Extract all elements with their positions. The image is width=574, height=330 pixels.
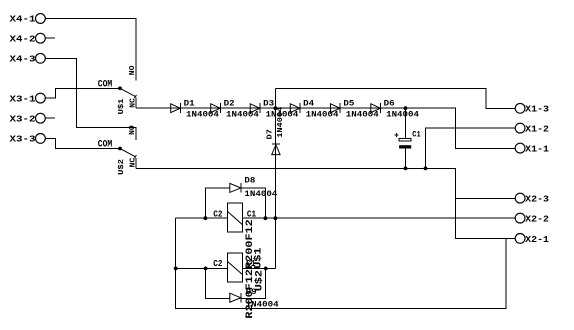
diode D6: [371, 99, 419, 120]
svg-text:C1: C1: [247, 210, 257, 220]
switch U$1: [98, 65, 138, 114]
connector pin X4-2: [10, 33, 46, 44]
svg-text:NO: NO: [129, 65, 137, 75]
svg-text:NC: NC: [129, 98, 137, 108]
svg-text:NC: NC: [129, 157, 137, 167]
svg-text:D6: D6: [384, 99, 395, 109]
wire X3-2 stub: [45, 117, 55, 119]
connector pin X3-2: [10, 113, 46, 124]
svg-text:1N4004: 1N4004: [346, 110, 379, 119]
diode D9: [206, 268, 279, 309]
capacitor C1: [394, 108, 420, 168]
connector pin X2-2: [515, 213, 549, 224]
wire NC2 row to rail / X2-1: [136, 169, 516, 239]
node junction D6-C1: [404, 106, 408, 110]
svg-text:C1: C1: [412, 130, 420, 139]
svg-text:X4-2: X4-2: [10, 33, 36, 44]
wire X3-3 to U$2 COM: [45, 138, 120, 148]
svg-text:C2: C2: [213, 210, 222, 220]
connector pin X3-1: [10, 93, 46, 104]
wire left rail to bottom rail to X2-1 riser: [176, 218, 506, 308]
connector pin X4-3: [10, 53, 46, 64]
wire X4-2 stub: [45, 37, 55, 39]
svg-text:D5: D5: [343, 99, 354, 109]
svg-text:X1-1: X1-1: [525, 144, 549, 155]
node junction D8 right: [264, 216, 268, 220]
diode D4: [290, 99, 338, 120]
wire relay1 row left: [176, 217, 228, 219]
svg-text:D4: D4: [303, 99, 314, 109]
wire X4-3 to U$2 NO: [45, 58, 136, 140]
diode D2: [211, 99, 259, 120]
svg-text:U$2: U$2: [118, 159, 126, 175]
relay coil U$2: [213, 253, 265, 319]
node junction C1-bottom: [404, 167, 408, 171]
wire relay2 row left: [176, 268, 228, 270]
svg-text:D1: D1: [184, 99, 195, 109]
connector pin X2-3: [515, 193, 549, 204]
connector pin X1-3: [515, 103, 549, 114]
svg-text:X2-1: X2-1: [525, 234, 549, 245]
diode D5: [331, 99, 379, 120]
svg-text:1N4004: 1N4004: [186, 110, 219, 119]
svg-text:1N4004: 1N4004: [277, 106, 285, 138]
connector pin X3-3: [10, 134, 46, 145]
wire X4-1 to U$1 NO: [45, 19, 136, 81]
svg-text:X3-1: X3-1: [10, 93, 36, 104]
svg-text:X3-2: X3-2: [10, 113, 36, 124]
connector pin X1-1: [515, 143, 549, 154]
diode D8: [205, 175, 277, 218]
connector pin X1-2: [515, 123, 549, 134]
node junction X1-2 drop: [424, 167, 428, 171]
svg-text:1N4004: 1N4004: [244, 190, 277, 199]
node junction D9 left: [204, 267, 208, 271]
wire branch to X2-3: [455, 198, 515, 200]
wire top link to X1-3: [275, 88, 515, 108]
switch U$2: [98, 125, 138, 175]
svg-text:1N4004: 1N4004: [246, 300, 279, 309]
svg-text:NO: NO: [129, 125, 137, 135]
svg-text:C1: C1: [246, 259, 256, 269]
svg-text:D9: D9: [246, 287, 257, 297]
wire X1-2 to C1 minus node: [426, 128, 516, 168]
node junction D8 left: [204, 216, 208, 220]
diode D7: [266, 106, 284, 268]
wire relay1 row right to X2-2: [243, 217, 516, 219]
node junction relay1 row / D7 rail: [274, 216, 278, 220]
svg-text:D7: D7: [266, 129, 274, 139]
svg-text:X1-2: X1-2: [525, 123, 549, 134]
svg-text:COM: COM: [98, 139, 113, 150]
connector pin X2-1: [515, 234, 549, 245]
diode D1: [171, 99, 219, 120]
svg-text:COM: COM: [98, 79, 113, 90]
svg-text:1N4004: 1N4004: [386, 110, 419, 119]
svg-text:1N4004: 1N4004: [226, 110, 259, 119]
diode D3: [250, 99, 298, 120]
svg-text:X4-1: X4-1: [10, 14, 36, 25]
svg-text:U$1: U$1: [118, 98, 126, 114]
svg-text:D8: D8: [244, 175, 255, 185]
svg-text:C2: C2: [213, 259, 222, 269]
wire relay2 row right: [243, 268, 276, 270]
svg-text:X1-3: X1-3: [525, 104, 549, 115]
svg-text:X4-3: X4-3: [10, 54, 36, 65]
svg-text:D3: D3: [263, 99, 274, 109]
node junction D9 right: [264, 267, 268, 271]
svg-text:1N4004: 1N4004: [306, 110, 339, 119]
connector pin X4-1: [10, 14, 46, 25]
node junction left rail / relay2 row: [174, 267, 178, 271]
wire X3-1 to U$1 COM: [45, 88, 120, 98]
svg-text:X2-2: X2-2: [525, 213, 549, 224]
node junction D3-D4-D7-top: [274, 106, 278, 110]
wire diode row / to X1-1: [136, 108, 516, 148]
svg-text:D2: D2: [224, 99, 235, 109]
svg-text:X2-3: X2-3: [525, 194, 549, 205]
relay coil U$1: [213, 203, 264, 269]
svg-text:X3-3: X3-3: [10, 134, 36, 145]
